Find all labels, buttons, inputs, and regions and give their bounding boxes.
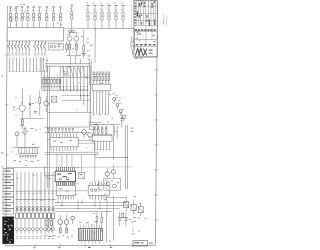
wire mid bus 2 upper: [45, 151, 99, 153]
transistor Q6: [58, 215, 63, 228]
pull-up resistor RP4: [26, 6, 29, 28]
IC bus buffer U1: [7, 28, 63, 41]
pull-up resistor RP9: [59, 6, 62, 27]
wire data drops: [60, 66, 87, 112]
transistor Q1: [67, 33, 72, 44]
page border right: [156, 2, 158, 246]
optocoupler channel OC5: [32, 172, 35, 239]
wire base feed: [21, 88, 23, 105]
optocoupler channel OC7: [40, 172, 43, 239]
fuse F2 below U1: [11, 41, 14, 55]
wire stub column 1: [9, 58, 11, 72]
zone numerals bottom border: [33, 244, 133, 248]
transistor Q8: [105, 168, 109, 176]
dashed net line top right: [130, 5, 132, 29]
wire node row E: [95, 157, 128, 158]
fuse F3 below U1: [14, 41, 17, 55]
page border left: [6, 6, 8, 246]
resistor R10: [24, 127, 26, 148]
capacitor C4: [120, 113, 123, 128]
wire slant fan: [63, 66, 86, 77]
net bracket labels right: [131, 128, 134, 132]
wire bottom bus 3: [55, 207, 120, 209]
junction dots matrix: [60, 86, 88, 96]
wire stub pair right: [114, 126, 117, 139]
resistor R15 left: [50, 214, 52, 232]
wire mid bus 2 lower: [45, 153, 99, 155]
diode CR10: [71, 216, 75, 224]
wire mid bus lower: [45, 65, 90, 67]
pull-up resistor RP5: [32, 6, 35, 28]
wire bottom right node: [106, 196, 127, 198]
wire array bus lower: [15, 199, 55, 201]
wire stub column 2: [12, 58, 14, 72]
diode CR2 mid: [44, 96, 48, 112]
wire band bus lower: [45, 132, 89, 134]
wire node row B: [62, 94, 90, 96]
wire vertical pair right: [89, 61, 91, 123]
wire bus row right module: [93, 124, 120, 125]
wire vertical D: [112, 196, 114, 241]
wire U8 output pins: [94, 141, 110, 150]
wire mid lower ties: [48, 66, 92, 125]
optocoupler channel OC1: [16, 172, 19, 239]
wire vertical B: [113, 125, 115, 160]
capacitor C7: [131, 200, 136, 215]
wire section divider left: [6, 166, 50, 168]
net label top left module: [31, 128, 38, 130]
resistor R14 left: [46, 214, 48, 232]
wire rail row: [42, 76, 91, 78]
wire stub column 7: [29, 58, 31, 72]
resistor R18: [101, 212, 103, 232]
zone ticks left border: [5, 55, 8, 205]
resistor R5: [66, 42, 68, 53]
diode array CR8: [48, 128, 74, 133]
pull-up resistor RP3: [21, 6, 24, 28]
net label mid right: [112, 93, 117, 95]
wire stub column 12: [46, 58, 48, 72]
transistor Q2: [74, 33, 79, 44]
wire U5 left feed: [45, 166, 56, 175]
sheet stamp box: [133, 241, 153, 246]
optocoupler channel OC3: [24, 172, 27, 239]
wire bus drop right: [132, 29, 135, 51]
optocoupler channel OC6: [36, 172, 39, 239]
stray mark left margin A: [1, 75, 3, 78]
pull-up resistor RP10: [86, 3, 89, 29]
fuse F11 below U1: [44, 41, 47, 55]
wire J2 bottom stubs: [81, 241, 99, 244]
wire long vertical A2: [48, 66, 50, 188]
wire stub column 9: [36, 58, 38, 72]
logic gate U3: [89, 124, 98, 129]
capacitor C1: [82, 51, 89, 56]
resistor network RN3: [92, 72, 110, 84]
wire top bus: [64, 27, 135, 29]
optocoupler channel OC9: [48, 172, 51, 239]
fuse F7 below U1: [28, 41, 31, 55]
wire stub column 10: [39, 58, 41, 72]
wire lower tie U2: [88, 121, 101, 123]
pull-up resistor RP2: [15, 6, 18, 28]
transistor Q9: [111, 165, 115, 174]
wire vertical pair C: [125, 125, 127, 190]
title block frame: [134, 0, 158, 58]
fuse F6 below U1: [24, 41, 27, 55]
wire vertical pair left: [42, 58, 45, 90]
approval stamp block: [3, 217, 14, 244]
wire bottom bus 2: [55, 204, 128, 206]
IC microcontroller U5: [55, 167, 75, 186]
wire stub column 5: [22, 58, 24, 72]
net reference labels scatter: [10, 4, 147, 241]
net bracket right cluster: [133, 217, 140, 222]
pull-up resistor RP11: [93, 3, 96, 29]
pull-up resistor RP7: [45, 6, 48, 27]
crystal Y1: [79, 172, 85, 178]
pull-up resistor RP15: [121, 3, 124, 29]
wire emitter row: [20, 118, 44, 120]
net label stubs right of U1: [87, 39, 91, 60]
capacitor C6: [124, 197, 129, 212]
diode CR9 left: [15, 132, 19, 147]
resistor network RN4: [93, 126, 107, 135]
resistor R16: [122, 213, 124, 218]
net labels above mid bus: [43, 59, 49, 61]
resistor R13: [66, 228, 68, 233]
wire bus drop mid: [94, 28, 96, 62]
pull-up resistor RP13: [107, 3, 110, 29]
resistor R3: [81, 30, 85, 58]
wire crystal feed: [80, 155, 82, 173]
capacitor C8: [138, 202, 143, 216]
resistor R1: [69, 44, 71, 50]
wire band bus upper: [45, 126, 89, 128]
resistor R8: [39, 91, 41, 116]
wire regulator input: [12, 146, 40, 148]
wire bottom bus 1: [55, 201, 128, 203]
pull-up resistor RP12: [100, 3, 103, 29]
wire bus to U5 drops: [57, 154, 73, 167]
capacitor C3: [33, 111, 37, 113]
page border bottom: [6, 244, 156, 247]
wire bottom right stub: [132, 226, 135, 234]
diode pair CR1: [69, 28, 74, 33]
wire J2 top stubs: [79, 222, 100, 229]
diode CR7 cascade: [122, 115, 127, 122]
wire stub column 8: [32, 58, 34, 72]
wire stub column 3: [15, 58, 17, 72]
fuse F4 below U1: [18, 41, 21, 55]
wire stub column 6: [26, 58, 28, 72]
transistor Q5: [88, 133, 93, 141]
wire emitter tie: [66, 50, 80, 65]
wire left of module A1: [97, 180, 99, 192]
wire stub column 11: [43, 58, 45, 72]
pencil scribble under block: [131, 36, 133, 55]
regulator pin row: [19, 155, 36, 159]
relay K1: [49, 43, 63, 50]
voltage regulator VR1: [19, 147, 37, 153]
wire long vertical A: [46, 66, 48, 188]
net labels array: [16, 192, 54, 195]
resistor R2: [75, 44, 77, 50]
IC driver U6: [56, 182, 75, 200]
transistor Q4: [82, 130, 87, 138]
diode CR6 cascade: [119, 109, 124, 116]
company logo: [135, 48, 152, 55]
diode CR5 cascade: [116, 103, 121, 110]
wire bus risers bottom: [57, 199, 107, 212]
capacitor C9 polarized: [118, 212, 122, 226]
net labels under regulator: [14, 160, 39, 162]
fuse F8 below U1: [34, 41, 37, 55]
fuse F5 below U1: [21, 41, 24, 55]
oscillator module A1: [104, 174, 121, 190]
wire section divider right: [50, 166, 132, 169]
revision table: [3, 169, 14, 215]
pull-up resistor RP8: [52, 6, 55, 27]
optocoupler channel OC8: [44, 172, 47, 239]
IC latch U8: [92, 134, 112, 141]
wire U2 output drops: [93, 91, 109, 115]
wire mid bus risers: [75, 56, 80, 64]
optocoupler channel OC10: [52, 172, 55, 239]
fuse F1 below U1: [8, 41, 11, 55]
wire bottom bus 4: [55, 210, 112, 212]
wire U4 outputs right: [78, 140, 95, 143]
pull-up resistor RP6: [38, 6, 41, 28]
wire U4 to U7 vertical: [94, 143, 96, 182]
wire horizontal node row: [42, 89, 89, 91]
pull-up resistor RP1: [9, 6, 12, 28]
fuse F9 below U1: [37, 41, 40, 55]
net label plus: [13, 107, 15, 111]
IC comparator U2: [92, 84, 111, 91]
net labels bottom middle: [45, 235, 73, 238]
pencil note beside block: [163, 15, 167, 26]
transistor Q7: [64, 215, 69, 228]
capacitor C10 polarized: [124, 212, 128, 226]
transistor Q3: [19, 105, 25, 119]
net labels box corner: [57, 23, 63, 26]
wire mid bus upper: [45, 63, 90, 65]
IC U4: [50, 133, 78, 151]
diode CR3: [29, 95, 32, 119]
fuse F10 below U1: [40, 41, 43, 55]
resistor network RN2: [42, 77, 61, 86]
diode CR4 cascade: [113, 97, 118, 104]
wire stub column 4: [19, 58, 21, 72]
IC driver U7: [88, 182, 109, 200]
optocoupler channel OC4: [28, 172, 31, 239]
resistor R17: [96, 212, 98, 230]
wire node row C: [62, 99, 90, 101]
connector J2: [78, 229, 102, 241]
pull-up resistor RP10: [70, 5, 73, 28]
relay K2 mid: [52, 96, 57, 102]
net labels under RN2: [42, 87, 61, 90]
zone ticks right border: [155, 70, 159, 220]
resistor R12: [59, 228, 61, 233]
optocoupler channel OC2: [20, 172, 23, 239]
wire array bus upper: [15, 190, 88, 192]
stray pencil mark left margin B: [1, 153, 3, 168]
resistor R7: [21, 119, 23, 129]
pull-up resistor RP14: [114, 3, 117, 29]
wire right drop J2: [106, 212, 108, 242]
